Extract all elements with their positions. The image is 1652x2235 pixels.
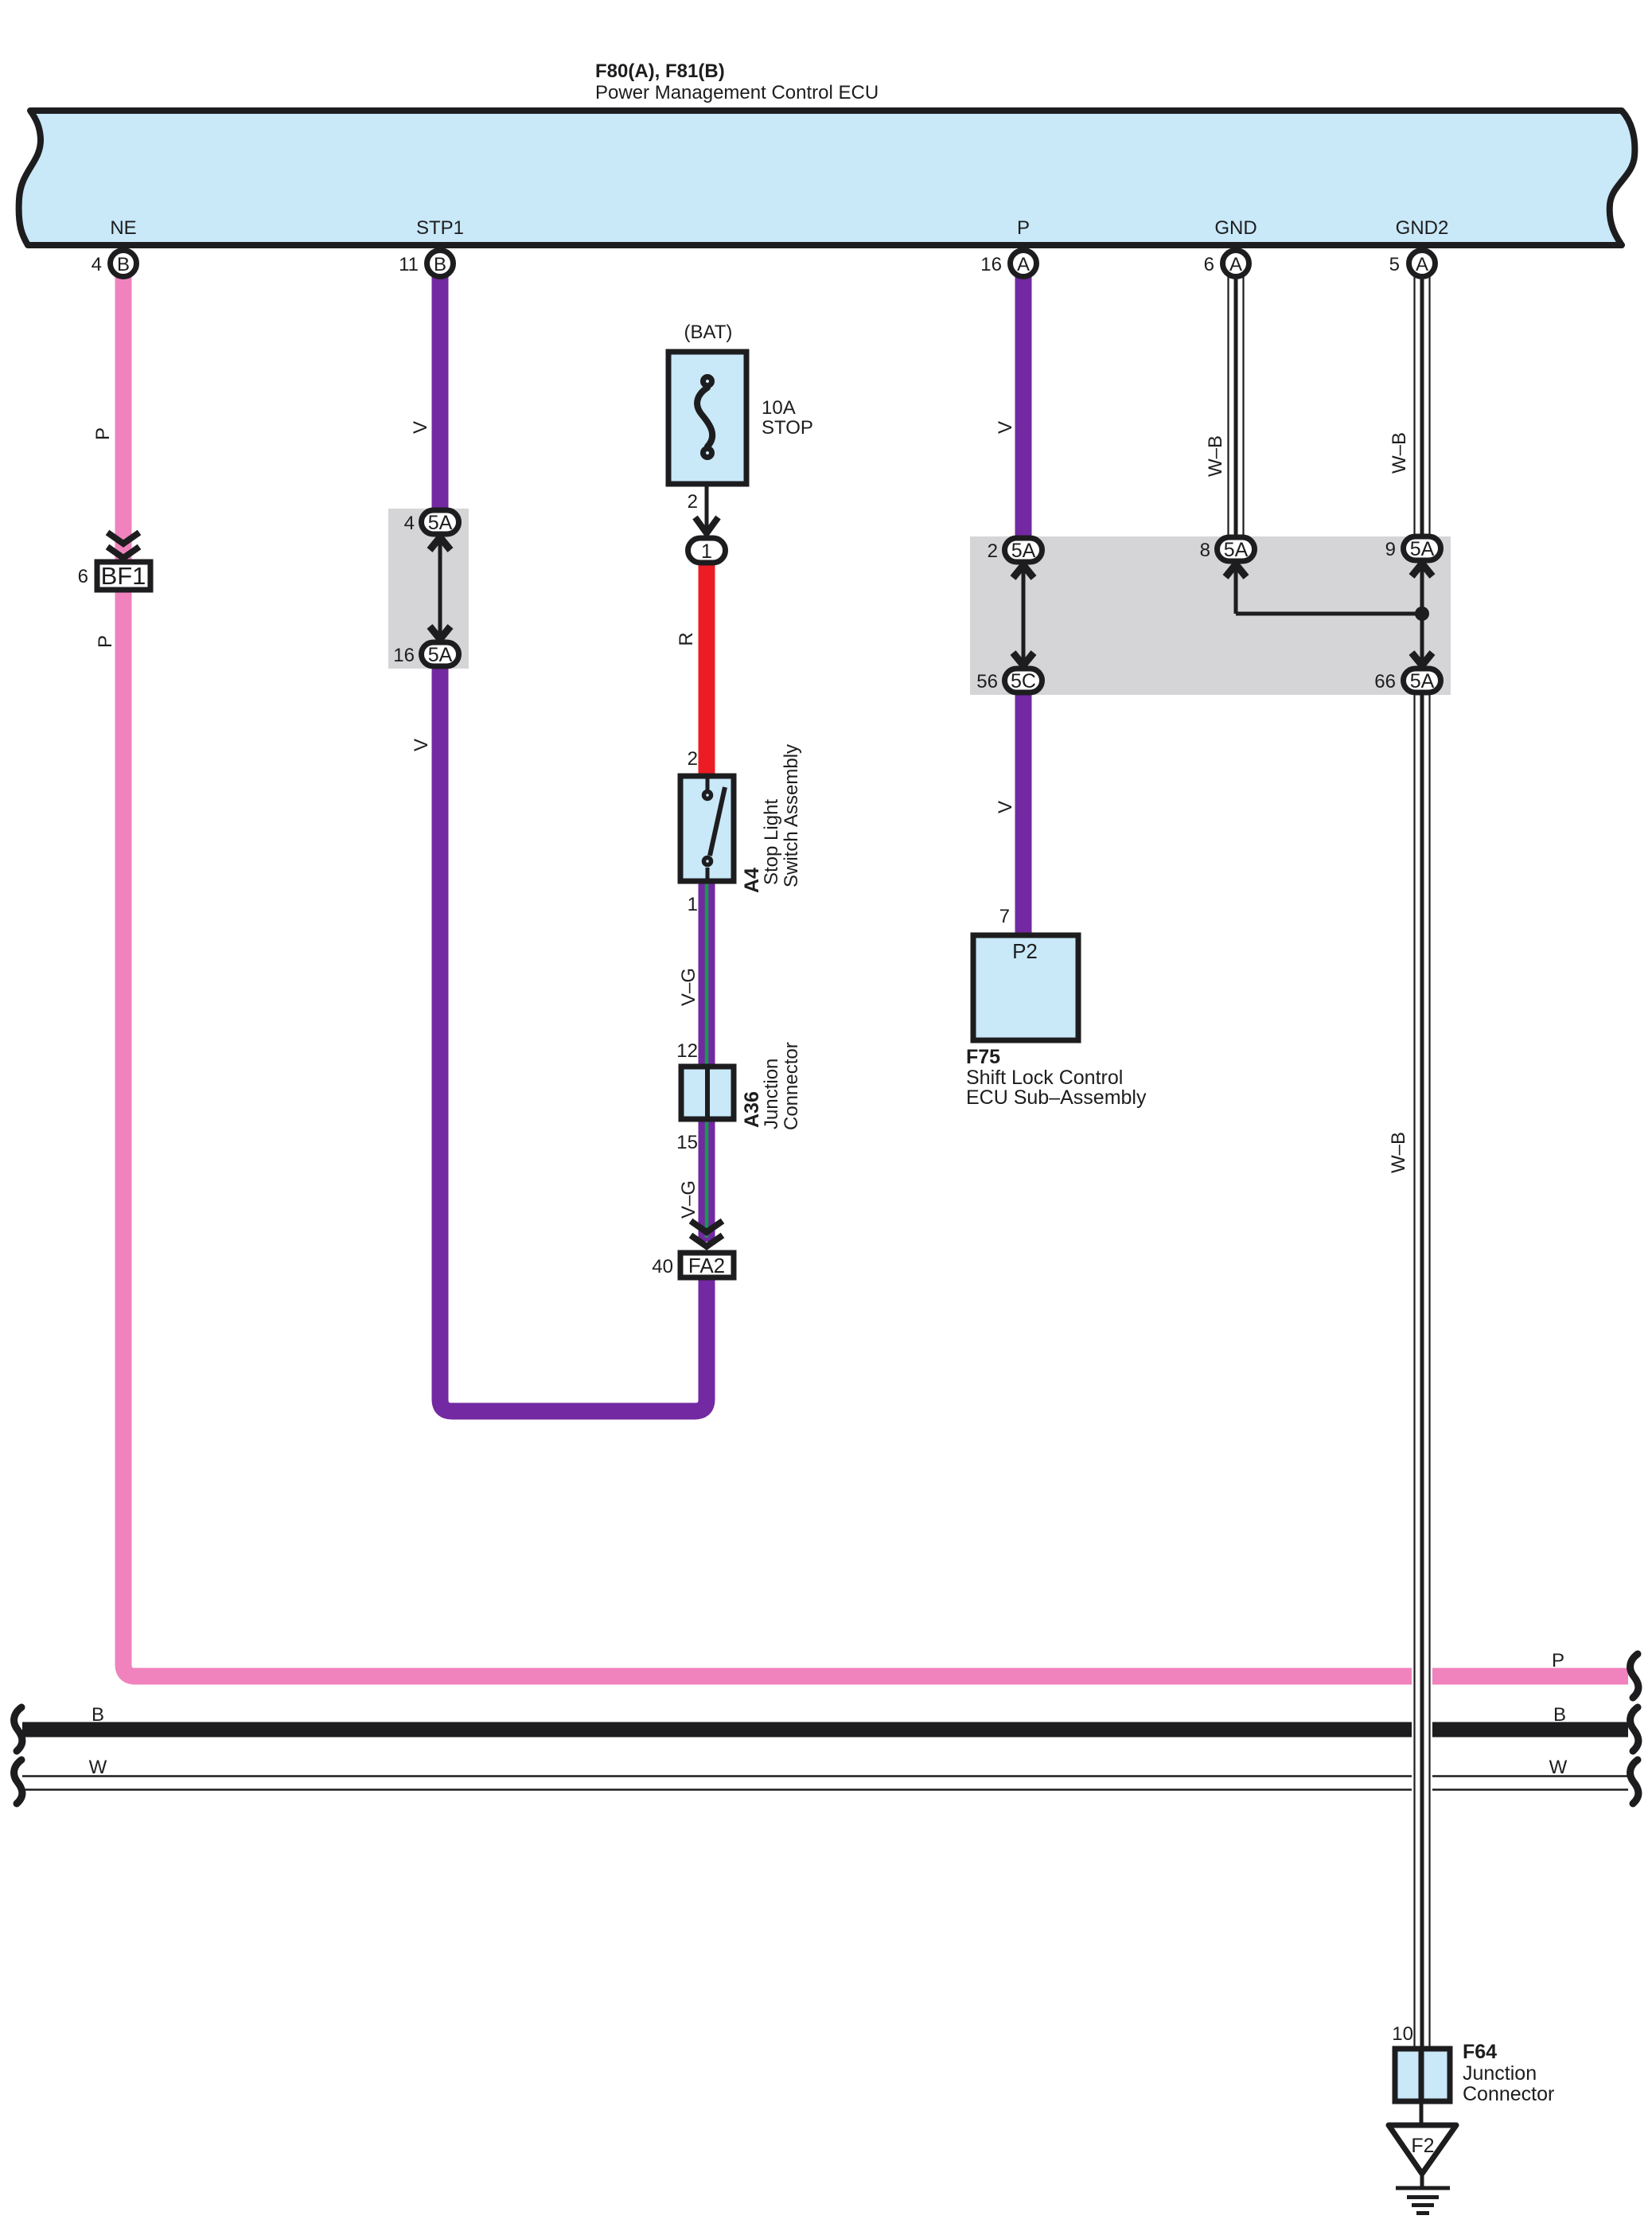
svg-text:5: 5 [1389,254,1400,275]
svg-text:R: R [676,632,697,646]
svg-text:A36: A36 [741,1091,763,1128]
svg-text:W–B: W–B [1388,1132,1409,1173]
svg-text:F80(A), F81(B): F80(A), F81(B) [595,60,725,82]
svg-text:5A: 5A [1224,539,1249,561]
svg-text:56: 56 [976,671,998,692]
svg-text:A4: A4 [741,868,763,893]
svg-text:40: 40 [652,1256,673,1277]
svg-text:1: 1 [688,894,698,915]
svg-text:W: W [89,1757,107,1778]
svg-text:STOP: STOP [762,417,813,439]
svg-text:Power Management Control ECU: Power Management Control ECU [595,82,879,103]
svg-text:5A: 5A [428,512,453,534]
svg-text:Junction: Junction [761,1059,782,1129]
svg-text:Shift Lock Control: Shift Lock Control [966,1067,1123,1089]
svg-text:A: A [1229,254,1242,275]
svg-text:P: P [95,635,116,648]
svg-text:9: 9 [1385,539,1396,560]
svg-text:P: P [1017,217,1030,239]
svg-text:V: V [995,421,1016,434]
svg-text:66: 66 [1374,671,1396,692]
svg-text:16: 16 [393,645,415,666]
svg-text:5A: 5A [1410,538,1435,560]
svg-text:10: 10 [1392,2023,1413,2045]
svg-text:4: 4 [404,513,415,534]
svg-text:V: V [411,739,432,751]
svg-text:5A: 5A [1011,540,1036,562]
svg-text:V–G: V–G [678,968,699,1006]
svg-text:2: 2 [988,540,998,562]
svg-text:P: P [1552,1650,1564,1671]
svg-text:2: 2 [688,748,698,770]
svg-text:V: V [995,801,1016,813]
svg-text:V: V [410,421,431,434]
svg-text:4: 4 [92,254,102,275]
svg-text:B: B [117,254,130,275]
svg-text:6: 6 [1204,254,1214,275]
svg-text:Junction: Junction [1463,2062,1537,2085]
svg-text:W–B: W–B [1205,435,1226,477]
svg-text:Stop Light: Stop Light [761,799,782,885]
svg-text:W: W [1549,1757,1568,1778]
svg-text:NE: NE [110,217,136,239]
svg-text:F75: F75 [966,1046,1000,1068]
svg-text:Switch Assembly: Switch Assembly [781,744,802,887]
svg-text:P2: P2 [1012,939,1038,963]
svg-text:P: P [92,427,114,440]
svg-text:B: B [1553,1704,1566,1726]
svg-text:F2: F2 [1411,2135,1434,2157]
svg-text:BF1: BF1 [101,562,146,590]
svg-text:ECU Sub–Assembly: ECU Sub–Assembly [966,1086,1147,1109]
svg-text:FA2: FA2 [688,1254,725,1277]
svg-text:8: 8 [1200,540,1210,561]
svg-text:10A: 10A [762,397,796,419]
svg-text:5A: 5A [1410,670,1435,692]
svg-text:16: 16 [980,254,1002,275]
svg-text:Connector: Connector [1463,2083,1554,2105]
svg-text:B: B [92,1704,104,1726]
svg-text:W–B: W–B [1389,432,1410,474]
svg-text:(BAT): (BAT) [684,322,733,343]
svg-text:5A: 5A [428,644,453,666]
svg-text:Connector: Connector [781,1042,802,1130]
svg-text:6: 6 [78,566,88,587]
svg-text:12: 12 [676,1040,698,1062]
svg-text:GND: GND [1214,217,1257,239]
svg-text:11: 11 [399,254,419,275]
svg-text:A: A [1017,254,1030,275]
svg-text:V–G: V–G [678,1180,699,1219]
svg-text:STP1: STP1 [416,217,464,239]
svg-text:B: B [434,254,446,275]
svg-text:5C: 5C [1011,670,1036,692]
svg-text:15: 15 [676,1132,698,1153]
svg-text:A: A [1416,254,1428,275]
svg-text:F64: F64 [1463,2041,1497,2063]
svg-text:1: 1 [701,540,712,563]
svg-text:GND2: GND2 [1396,217,1449,239]
svg-text:7: 7 [999,906,1010,927]
svg-text:2: 2 [688,491,698,513]
